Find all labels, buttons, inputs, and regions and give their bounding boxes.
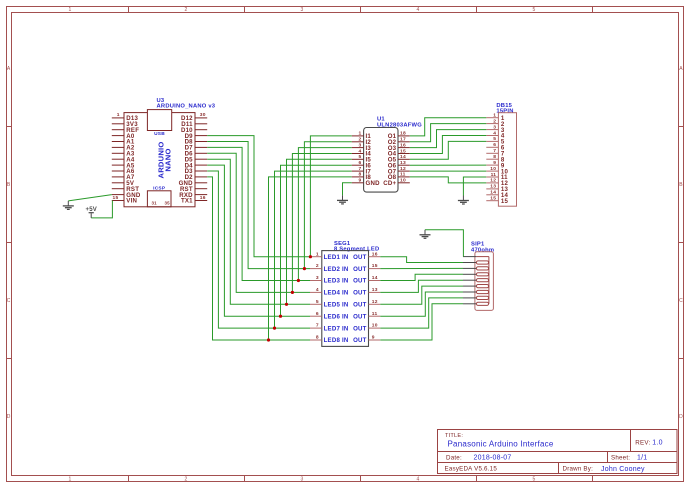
svg-text:+5V: +5V (86, 207, 98, 213)
SEG1 body (322, 251, 369, 347)
U3 pin D7 (right 25) (195, 146, 207, 148)
SIP1 pin 2 (463, 262, 476, 264)
svg-text:9: 9 (359, 178, 362, 184)
U3 pin D2 (right 20) (195, 176, 207, 178)
DB15 pin 14 (486, 194, 498, 196)
junction LED5 node (285, 303, 288, 306)
wire OUT10 to SIP pin8 (380, 298, 463, 328)
U3 pin GND (right 19) (195, 182, 207, 184)
svg-text:2: 2 (184, 476, 187, 482)
svg-text:LED5 IN: LED5 IN (324, 302, 349, 309)
svg-text:3: 3 (493, 124, 496, 130)
wire O3 to DB15 pin3 (410, 130, 487, 148)
wire OUT9 to SIP pin9 (380, 304, 463, 340)
svg-text:2: 2 (359, 137, 362, 143)
ground near SIP1 (420, 230, 431, 239)
svg-text:1: 1 (316, 251, 319, 257)
SIP1 pin 7 (463, 291, 476, 293)
SEG1 pin OUT number 15 (369, 268, 381, 270)
SIP1 resistor element 2 (476, 267, 488, 270)
wire D3 to LED7 IN (207, 171, 310, 328)
SIP1 pin 3 (463, 267, 476, 269)
svg-text:OUT: OUT (353, 266, 367, 273)
U3 pin A4 (left 8) (112, 158, 124, 160)
U1 pin GND number 9 (352, 182, 364, 184)
svg-text:5: 5 (493, 136, 496, 142)
svg-text:John Cooney: John Cooney (601, 466, 645, 473)
svg-text:14: 14 (372, 275, 378, 281)
svg-text:1: 1 (68, 7, 71, 13)
U1 pin O2 number 17 (398, 141, 410, 143)
U3 USB sub-box (147, 110, 171, 131)
svg-text:470ohm: 470ohm (471, 247, 494, 253)
svg-text:OUT: OUT (353, 337, 367, 344)
U1 pin I3 number 3 (352, 147, 364, 149)
wire D6 to LED4 IN (207, 153, 310, 292)
svg-text:9: 9 (372, 335, 375, 341)
wire ULN GND down (343, 183, 352, 196)
DB15 pin 15 (486, 200, 498, 202)
wire O6 to DB15 pin9 (410, 164, 487, 166)
svg-text:12: 12 (400, 166, 406, 172)
svg-text:15: 15 (490, 196, 496, 202)
wire OUT16 to SIP pin2 (380, 257, 463, 263)
svg-text:10: 10 (400, 178, 406, 184)
svg-text:3: 3 (300, 476, 303, 482)
svg-text:OUT: OUT (353, 325, 367, 332)
svg-text:Sheet:: Sheet: (611, 455, 630, 462)
svg-text:OUT: OUT (353, 290, 367, 297)
SIP1 common rail (476, 256, 489, 258)
svg-text:OUT: OUT (353, 278, 367, 285)
SIP1 pin 9 (463, 303, 476, 305)
U1 pin I8 number 8 (352, 176, 364, 178)
wire O5 to DB15 pin5 (410, 141, 487, 159)
svg-text:LED3 IN: LED3 IN (324, 278, 349, 285)
driver U1 ULN2803AFWG (352, 117, 423, 193)
U1 pin I4 number 4 (352, 153, 364, 155)
wire SIP pin1 to ground (425, 230, 463, 257)
svg-text:U1: U1 (377, 117, 385, 123)
svg-text:Panasonic Arduino Interface: Panasonic Arduino Interface (448, 439, 554, 448)
wire OUT12 to SIP pin6 (380, 286, 463, 304)
svg-text:NANO: NANO (164, 148, 173, 171)
svg-text:1: 1 (68, 476, 71, 482)
svg-text:11: 11 (400, 172, 406, 178)
U3 pin D3 (right 21) (195, 170, 207, 172)
svg-text:LED4 IN: LED4 IN (324, 290, 349, 297)
svg-text:5: 5 (532, 7, 535, 13)
SEG1 pin LED5 IN number 5 (310, 303, 322, 305)
U3 pin A6 (left 10) (112, 170, 124, 172)
wire OUT14 to SIP pin4 (380, 274, 463, 280)
wire LED6 junction to ULN I6 (281, 165, 352, 316)
svg-text:13: 13 (490, 184, 496, 190)
svg-text:14: 14 (490, 190, 496, 196)
svg-text:EasyEDA V5.6.15: EasyEDA V5.6.15 (445, 466, 498, 473)
DB15 pin 9 (486, 164, 498, 166)
svg-text:2: 2 (184, 7, 187, 13)
svg-text:REV:: REV: (635, 440, 650, 447)
U1 pin CD+ number 10 (398, 182, 410, 184)
connector DB15 15PIN (486, 103, 516, 206)
svg-text:8: 8 (493, 154, 496, 160)
junction LED7 node (273, 327, 276, 330)
svg-text:5: 5 (532, 476, 535, 482)
svg-text:13: 13 (400, 160, 406, 166)
SIP1 resistor element 5 (476, 285, 488, 288)
wire O7 to DB15 pin10 (410, 170, 487, 172)
svg-text:1: 1 (493, 113, 496, 119)
wire O4 to DB15 pin4 (410, 136, 487, 154)
SEG1 pin LED8 IN number 8 (310, 339, 322, 341)
svg-text:GND: GND (366, 180, 381, 187)
svg-text:5: 5 (359, 154, 362, 160)
U3 pin 5V (left 12) (112, 182, 124, 184)
svg-text:10: 10 (372, 323, 378, 329)
wire OUT13 to SIP pin5 (380, 280, 463, 292)
wire O1 to DB15 pin1 (410, 118, 487, 136)
SIP1 pin 5 (463, 279, 476, 281)
svg-text:16: 16 (200, 195, 206, 201)
wire D7 to LED3 IN (207, 147, 310, 280)
U1 pin O6 number 13 (398, 164, 410, 166)
svg-text:8: 8 (359, 172, 362, 178)
svg-text:LED1 IN: LED1 IN (324, 254, 349, 261)
SIP1 resistor element 8 (476, 302, 488, 305)
svg-text:1/1: 1/1 (637, 455, 647, 462)
DB15 pin 7 (486, 152, 498, 154)
wire +5V to VIN (91, 201, 112, 218)
svg-text:OUT: OUT (353, 254, 367, 261)
svg-text:OUT: OUT (353, 302, 367, 309)
U1 pin I6 number 6 (352, 164, 364, 166)
U1 pin O3 number 16 (398, 147, 410, 149)
wire LED3 junction to ULN I3 (298, 148, 351, 281)
ground near DB15 (458, 196, 469, 205)
U1 pin I5 number 5 (352, 158, 364, 160)
SIP1 resistor element 3 (476, 273, 488, 276)
DB15 body (498, 113, 516, 207)
svg-text:ICSP: ICSP (153, 185, 166, 191)
svg-text:15: 15 (113, 195, 119, 201)
svg-text:8: 8 (316, 335, 319, 341)
svg-text:LED8 IN: LED8 IN (324, 337, 349, 344)
wire D8 to LED2 IN (207, 142, 310, 269)
mcu U3 ARDUINO_NANO v3 (112, 98, 216, 207)
svg-text:14: 14 (400, 154, 406, 160)
svg-text:LED7 IN: LED7 IN (324, 325, 349, 332)
wire O8 to DB15 pin12 (410, 177, 487, 183)
U3 pin VIN (left 15) (112, 200, 124, 202)
power flag +5V (86, 207, 98, 218)
junction LED1 node (309, 255, 312, 258)
U3 pin A2 (left 6) (112, 146, 124, 148)
svg-text:4: 4 (359, 148, 362, 154)
DB15 pin 12 (486, 182, 498, 184)
svg-text:ARDUINO_NANO v3: ARDUINO_NANO v3 (157, 104, 216, 110)
svg-text:USB: USB (154, 131, 165, 137)
svg-text:1.0: 1.0 (652, 440, 662, 447)
U1 pin O1 number 18 (398, 135, 410, 137)
DB15 pin 2 (486, 123, 498, 125)
svg-text:31: 31 (152, 201, 158, 206)
svg-text:6: 6 (316, 311, 319, 317)
SEG1 pin LED3 IN number 3 (310, 280, 322, 282)
wire LED2 junction to ULN I2 (304, 142, 351, 269)
U3 pin D5 (right 23) (195, 158, 207, 160)
DB15 pin 3 (486, 129, 498, 131)
ground near U1 (337, 195, 348, 204)
svg-text:3: 3 (316, 275, 319, 281)
svg-text:LED6 IN: LED6 IN (324, 313, 349, 320)
svg-text:VIN: VIN (126, 198, 137, 205)
U1 pin O7 number 12 (398, 170, 410, 172)
svg-text:11: 11 (491, 172, 497, 178)
svg-text:1: 1 (359, 131, 362, 137)
wire nano GND down (68, 195, 112, 201)
U1 pin O4 number 15 (398, 153, 410, 155)
svg-text:30: 30 (200, 112, 206, 118)
svg-text:3: 3 (300, 7, 303, 13)
svg-text:7: 7 (316, 323, 319, 329)
DB15 pin 1 (486, 117, 498, 119)
SEG1 pin OUT number 12 (369, 303, 381, 305)
svg-text:TX1: TX1 (181, 198, 193, 205)
svg-text:4: 4 (416, 7, 419, 13)
U1 pin I7 number 7 (352, 170, 364, 172)
SIP1 pin 4 (463, 273, 476, 275)
DB15 pin 5 (486, 140, 498, 142)
SEG1 pin LED4 IN number 4 (310, 291, 322, 293)
svg-text:17: 17 (400, 137, 406, 143)
wire D9 to LED1 IN (207, 136, 310, 257)
wire OUT11 to SIP pin7 (380, 292, 463, 316)
junction LED3 node (297, 279, 300, 282)
U1 body (364, 128, 398, 193)
U3 pin A5 (left 9) (112, 164, 124, 166)
DB15 pin 10 (486, 170, 498, 172)
U3 pin D12 (right 30) (195, 117, 207, 119)
U3 pin A1 (left 5) (112, 141, 124, 143)
SEG1 pin OUT number 10 (369, 327, 381, 329)
SIP1 resistor element 6 (476, 290, 488, 293)
svg-text:6: 6 (493, 142, 496, 148)
svg-text:15: 15 (372, 263, 378, 269)
wire LED4 junction to ULN I4 (292, 154, 351, 293)
U3 pin A3 (left 7) (112, 152, 124, 154)
U3 pin D13 (left 1) (112, 117, 124, 119)
svg-text:D: D (679, 414, 683, 420)
SEG1 pin OUT number 11 (369, 315, 381, 317)
svg-text:2: 2 (316, 263, 319, 269)
SEG1 pin LED6 IN number 6 (310, 315, 322, 317)
wire OUT15 to SIP pin3 (380, 267, 463, 269)
junction LED8 node (267, 338, 270, 341)
wire LED7 junction to ULN I7 (275, 171, 352, 328)
DB15 pin 6 (486, 146, 498, 148)
svg-text:1: 1 (117, 112, 120, 118)
wire LED1 junction to ULN I1 (310, 136, 351, 257)
resistor network SIP1 470ohm (463, 242, 494, 311)
svg-text:18: 18 (400, 131, 406, 137)
svg-text:15PIN: 15PIN (496, 108, 513, 114)
U3 pin D4 (right 22) (195, 164, 207, 166)
SEG1 pin OUT number 9 (369, 339, 381, 341)
DB15 pin 4 (486, 135, 498, 137)
U3 pin D6 (right 24) (195, 152, 207, 154)
wire D4 to LED6 IN (207, 165, 310, 316)
U3 pin A0 (left 4) (112, 135, 124, 137)
SEG1 pin LED1 IN number 1 (310, 256, 322, 258)
svg-text:7: 7 (359, 166, 362, 172)
svg-text:TITLE:: TITLE: (445, 433, 463, 439)
U3 pin TX1 (right 16) (195, 200, 207, 202)
wire D5 to LED5 IN (207, 159, 310, 304)
svg-text:13: 13 (372, 287, 378, 293)
U1 pin I1 number 1 (352, 135, 364, 137)
wire LED5 junction to ULN I5 (287, 159, 352, 304)
svg-text:B: B (7, 182, 11, 188)
svg-text:5: 5 (316, 299, 319, 305)
junction LED4 node (291, 291, 294, 294)
SIP1 pin 1 (463, 256, 476, 258)
U3 pin D10 (right 28) (195, 129, 207, 131)
ground near U3 (63, 201, 74, 210)
junction LED6 node (279, 315, 282, 318)
svg-text:2018-08-07: 2018-08-07 (474, 455, 512, 462)
svg-text:16: 16 (372, 251, 378, 257)
U1 pin O5 number 14 (398, 158, 410, 160)
U3 pin GND (left 14) (112, 194, 124, 196)
svg-text:16: 16 (400, 142, 406, 148)
svg-text:A: A (679, 66, 683, 72)
svg-text:C: C (7, 298, 11, 304)
svg-text:B: B (679, 182, 683, 188)
U3 pin D11 (right 29) (195, 123, 207, 125)
DB15 pin 13 (486, 188, 498, 190)
display SEG1 8 Segment LED (310, 241, 380, 347)
U3 pin RXD (right 17) (195, 194, 207, 196)
svg-text:Date:: Date: (446, 455, 462, 462)
svg-text:15: 15 (501, 198, 509, 205)
U3 pin RST (left 13) (112, 188, 124, 190)
svg-text:7: 7 (493, 148, 496, 154)
svg-text:2: 2 (493, 118, 496, 124)
SIP1 resistor element 4 (476, 279, 488, 282)
U3 pin RST (right 18) (195, 188, 207, 190)
svg-text:OUT: OUT (353, 313, 367, 320)
U3 ICSP sub-box (147, 191, 171, 207)
svg-text:C: C (679, 298, 683, 304)
SIP1 pin 6 (463, 285, 476, 287)
svg-text:A: A (7, 66, 11, 72)
svg-text:4: 4 (316, 287, 319, 293)
SIP1 resistor element 7 (476, 296, 488, 299)
svg-text:4: 4 (493, 130, 496, 136)
U1 pin I2 number 2 (352, 141, 364, 143)
svg-text:15: 15 (400, 148, 406, 154)
svg-text:CD+: CD+ (383, 180, 396, 187)
SIP1 body (475, 252, 494, 311)
SIP1 pin 8 (463, 297, 476, 299)
svg-text:11: 11 (372, 311, 378, 317)
svg-text:D: D (7, 414, 11, 420)
svg-text:10: 10 (490, 166, 496, 172)
wire LED8 junction to ULN I8 (269, 177, 352, 340)
DB15 pin 8 (486, 158, 498, 160)
wire O2 to DB15 pin2 (410, 124, 487, 142)
svg-text:12: 12 (372, 299, 378, 305)
SEG1 pin LED7 IN number 7 (310, 327, 322, 329)
U3 pin 3V3 (left 2) (112, 123, 124, 125)
wire D2 to LED8 IN (207, 177, 310, 340)
DB15 pin 11 (486, 176, 498, 178)
U1 pin O8 number 11 (398, 176, 410, 178)
svg-text:6: 6 (359, 160, 362, 166)
SEG1 pin OUT number 14 (369, 280, 381, 282)
svg-text:35: 35 (165, 201, 171, 206)
U3 pin D9 (right 27) (195, 135, 207, 137)
U3 body (124, 113, 195, 207)
U3 pin A7 (left 11) (112, 176, 124, 178)
SEG1 pin OUT number 16 (369, 256, 381, 258)
SEG1 pin OUT number 13 (369, 291, 381, 293)
svg-text:3: 3 (359, 142, 362, 148)
svg-text:4: 4 (416, 476, 419, 482)
junction LED2 node (303, 267, 306, 270)
SIP1 resistor element 1 (476, 261, 488, 264)
U3 pin D8 (right 26) (195, 141, 207, 143)
SEG1 pin LED2 IN number 2 (310, 268, 322, 270)
svg-text:Drawn By:: Drawn By: (563, 466, 594, 473)
svg-text:LED2 IN: LED2 IN (324, 266, 349, 273)
svg-text:12: 12 (490, 178, 496, 184)
U3 pin REF (left 3) (112, 129, 124, 131)
svg-text:9: 9 (493, 160, 496, 166)
wire DB15 pin11 to ground (463, 177, 486, 196)
